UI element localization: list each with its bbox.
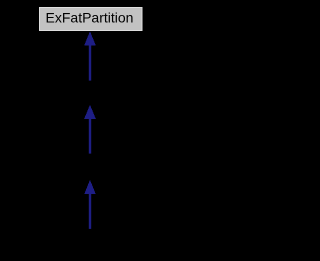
- inheritance arrow 1 shaft: [89, 45, 91, 81]
- inheritance arrow 1 head: [84, 31, 96, 45]
- inheritance arrow 3 head: [84, 180, 96, 194]
- inheritance arrow 2 shaft: [89, 118, 91, 153]
- inheritance arrow 2 head: [84, 105, 96, 119]
- inheritance arrow 3 shaft: [89, 194, 91, 229]
- class node ExFatPartition: [40, 8, 143, 31]
- svg-text:ExFatPartition: ExFatPartition: [46, 10, 134, 26]
